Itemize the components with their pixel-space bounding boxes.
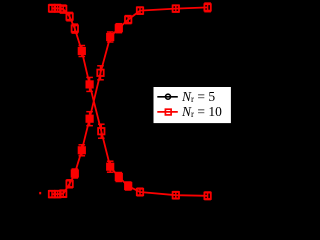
svg-text:Nr = 5: Nr = 5 [181,89,215,104]
legend entry 2 square marker [165,109,171,115]
curve false-alarm (ascending) : polyline [52,7,208,194]
legend box [153,87,231,124]
curve false-alarm (ascending) : square markers [49,4,211,197]
legend entry 2 sample line [157,111,178,113]
legend entry 1 sample line [157,96,178,98]
legend entry 1 circle marker [166,94,171,99]
curve missed-detection (descending) : polyline [52,8,208,196]
curve missed-detection (descending) : square markers [49,5,211,199]
curve false-alarm first tiny marker [39,192,41,194]
svg-text:Nr = 10: Nr = 10 [181,104,222,119]
curve false-alarm (ascending, red squares) : error bars [49,3,211,198]
curve missed-detection (descending, red squares) : error bars [49,5,211,200]
